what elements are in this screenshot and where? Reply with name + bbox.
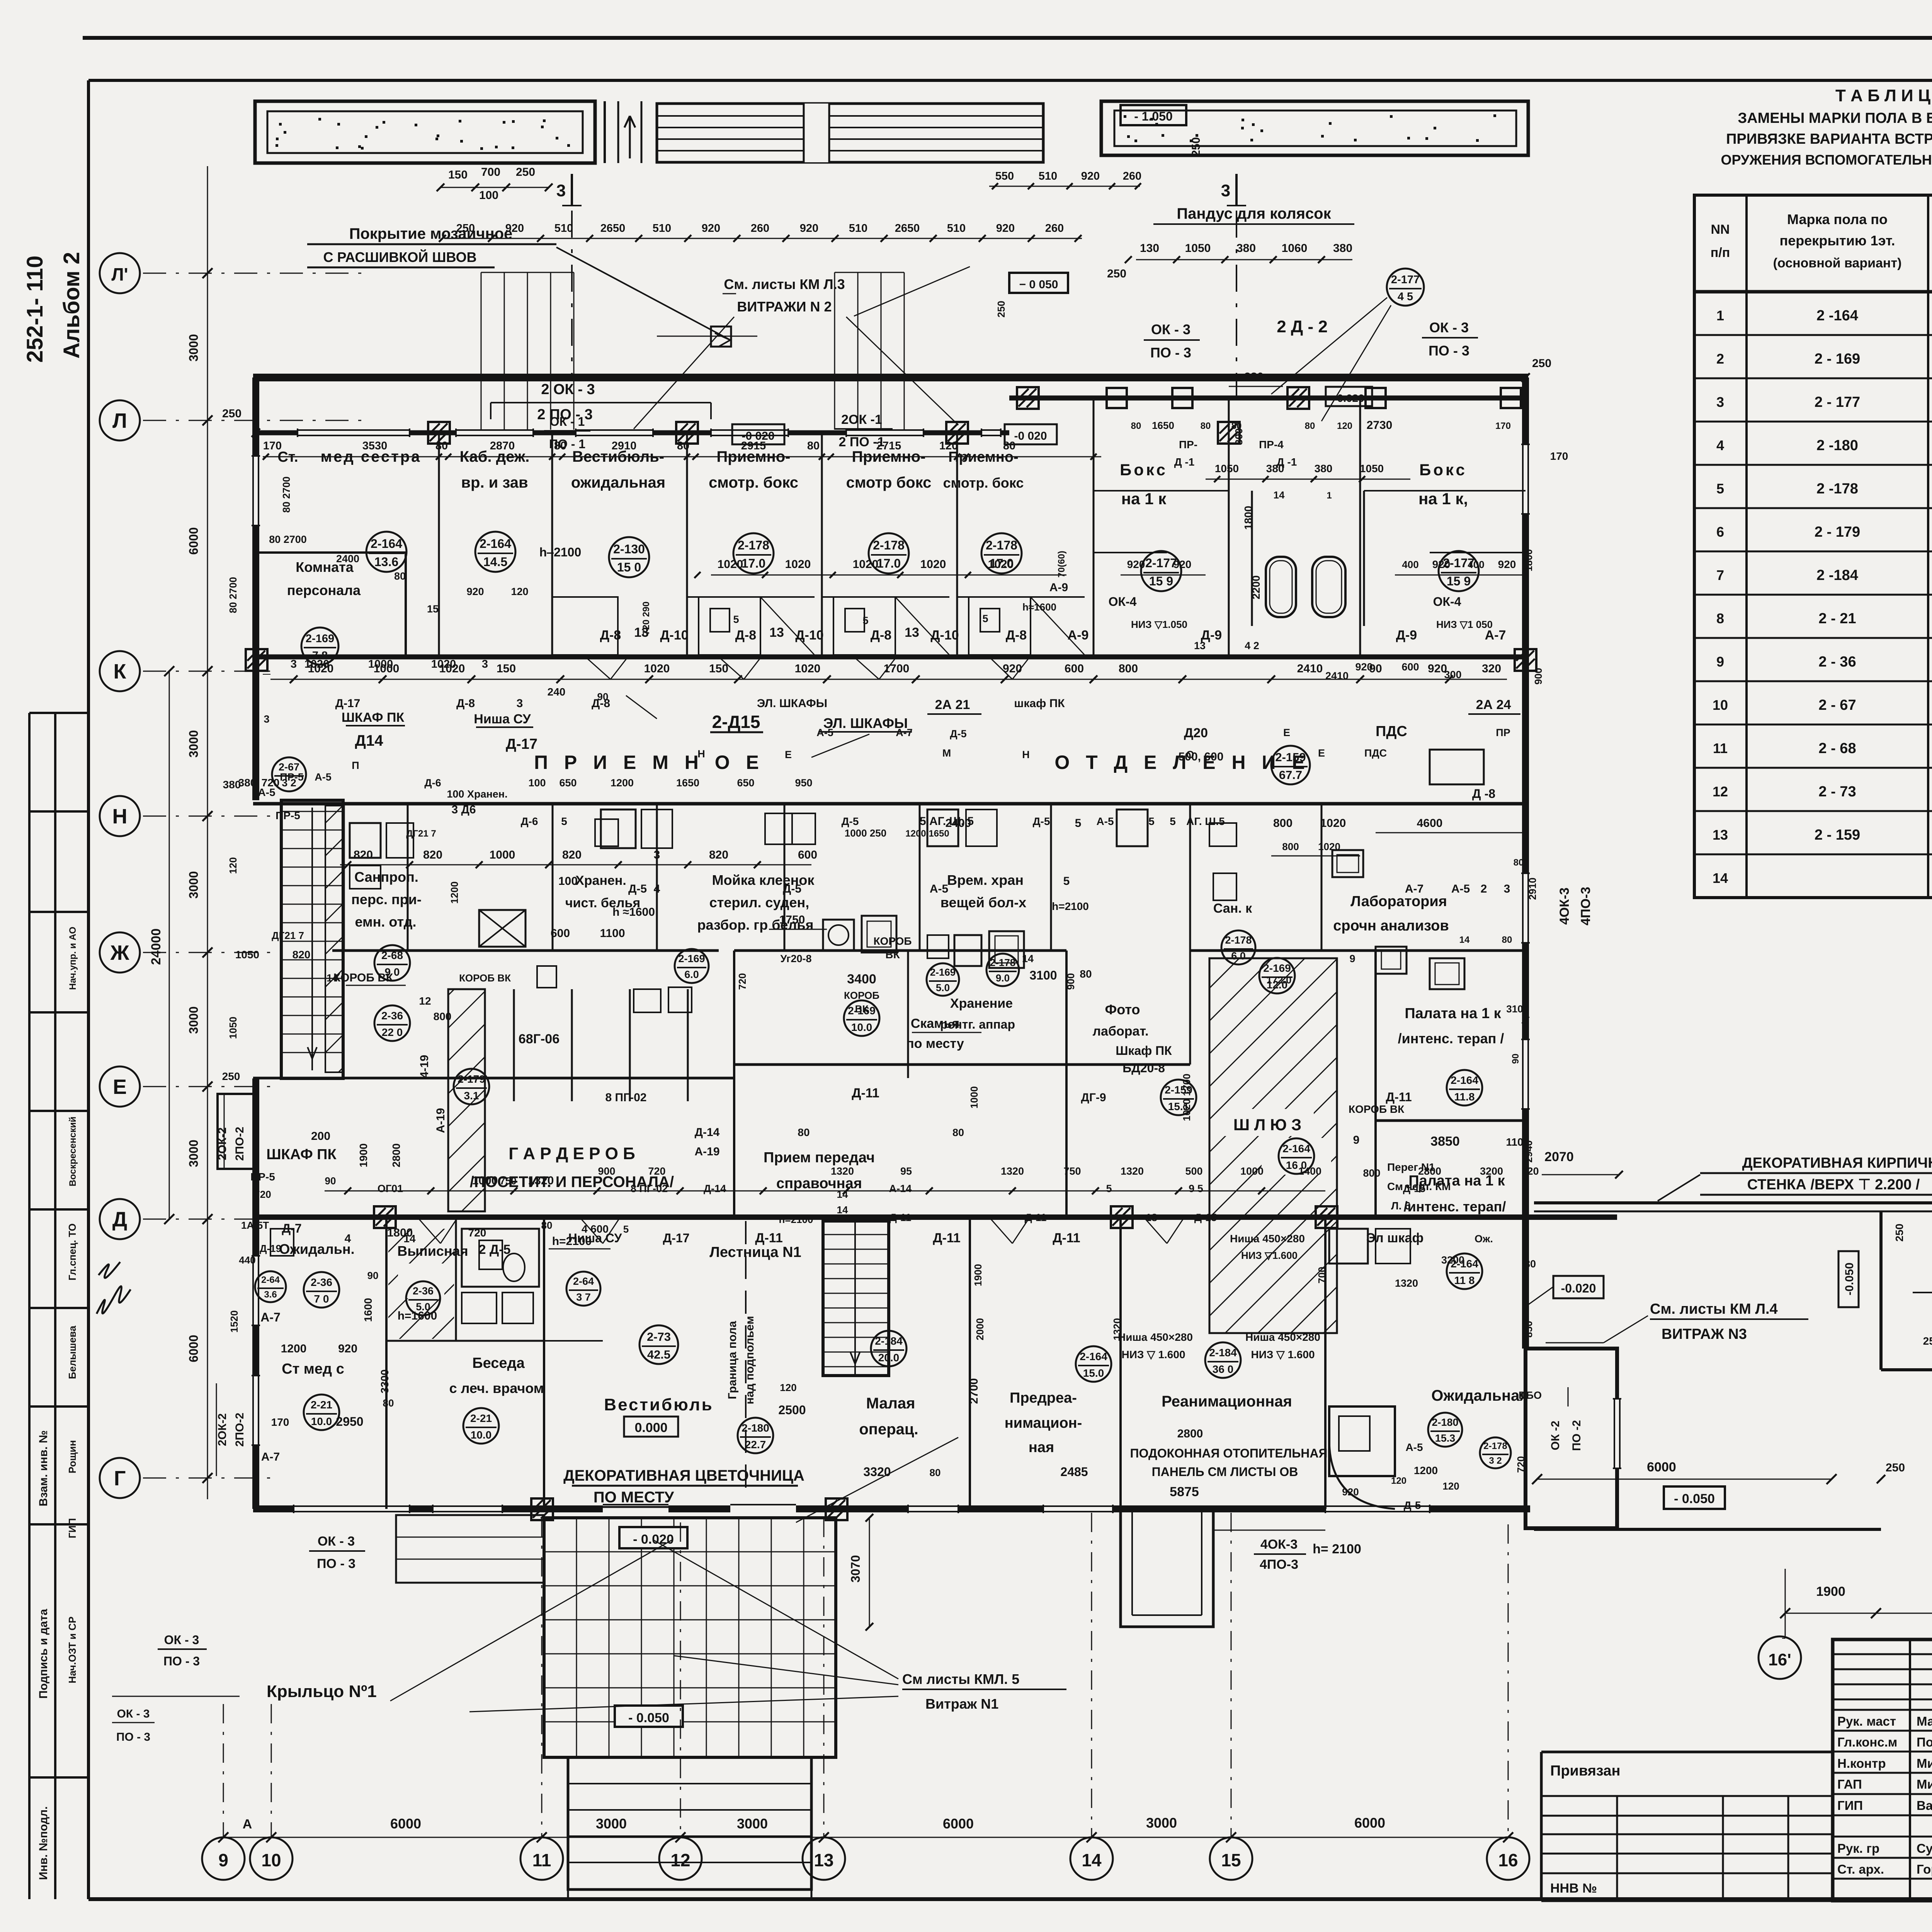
- svg-text:Д-5: Д-5: [1033, 815, 1050, 827]
- svg-text:Предреа-: Предреа-: [1010, 1390, 1077, 1406]
- svg-text:Ст мед с: Ст мед с: [282, 1361, 344, 1377]
- svg-text:2410: 2410: [1297, 662, 1323, 675]
- svg-text:80: 80: [541, 1219, 553, 1231]
- svg-text:Д-5: Д-5: [1404, 1499, 1421, 1511]
- svg-text:250: 250: [1893, 1224, 1905, 1242]
- svg-text:14: 14: [1082, 1850, 1102, 1870]
- svg-text:1050: 1050: [235, 949, 259, 961]
- axis circle Н: [100, 796, 140, 836]
- svg-text:Д-10: Д-10: [930, 628, 959, 643]
- svg-text:Д-8: Д-8: [735, 628, 756, 643]
- svg-text:6: 6: [1716, 524, 1724, 540]
- svg-text:150: 150: [709, 662, 728, 675]
- svg-text:12: 12: [670, 1850, 690, 1870]
- axis line Г: [143, 1478, 270, 1479]
- svg-text:Ожидальная: Ожидальная: [1431, 1387, 1528, 1404]
- svg-text:240: 240: [548, 686, 566, 698]
- svg-text:800: 800: [1282, 841, 1299, 852]
- svg-text:5: 5: [1148, 815, 1155, 827]
- svg-text:90: 90: [325, 1175, 336, 1187]
- svg-text:Хранен.: Хранен.: [575, 873, 626, 888]
- svg-text:4: 4: [1716, 437, 1724, 453]
- svg-text:600: 600: [1401, 661, 1419, 673]
- svg-text:ШКАФ ПК: ШКАФ ПК: [266, 1146, 337, 1163]
- corridor dim line: [270, 679, 1507, 680]
- svg-text:400: 400: [1468, 559, 1484, 570]
- svg-text:13: 13: [814, 1850, 833, 1870]
- svg-text:Ниша 450×280: Ниша 450×280: [1245, 1331, 1320, 1343]
- svg-text:850: 850: [1523, 1321, 1534, 1337]
- canopy chute with arrow: [604, 101, 606, 163]
- right mid dims: [1376, 832, 1522, 833]
- svg-text:Н: Н: [112, 805, 128, 828]
- svg-text:2-180: 2-180: [742, 1422, 769, 1434]
- svg-text:920: 920: [505, 222, 524, 235]
- svg-text:Милешин: Милешин: [1917, 1777, 1932, 1791]
- axis circle 10 bottom: [250, 1837, 293, 1880]
- stamp column row lines: [29, 712, 88, 714]
- svg-text:650: 650: [737, 777, 754, 789]
- граница пола dashed line: [745, 1221, 747, 1499]
- svg-text:КОРОБ: КОРОБ: [844, 990, 879, 1001]
- svg-text:4-19: 4-19: [418, 1055, 431, 1078]
- svg-text:120: 120: [1521, 1165, 1539, 1177]
- svg-text:2-177: 2-177: [1391, 274, 1420, 286]
- svg-text:Крыльцо Nº1: Крыльцо Nº1: [267, 1682, 377, 1701]
- svg-text:900: 900: [1532, 668, 1544, 684]
- svg-text:2-179: 2-179: [457, 1073, 485, 1085]
- svg-text:5: 5: [982, 613, 988, 624]
- svg-text:2-178: 2-178: [990, 957, 1016, 968]
- svg-text:ГАП: ГАП: [1837, 1777, 1862, 1791]
- svg-text:10: 10: [261, 1850, 281, 1870]
- svg-text:5: 5: [733, 614, 739, 625]
- svg-text:Васина: Васина: [1917, 1798, 1932, 1813]
- svg-text:8: 8: [1716, 611, 1724, 626]
- svg-text:1020: 1020: [853, 558, 879, 571]
- svg-text:1060: 1060: [1282, 242, 1308, 255]
- svg-text:Д-17: Д-17: [506, 736, 537, 752]
- svg-text:Д-8: Д-8: [592, 697, 610, 710]
- svg-text:800: 800: [1119, 662, 1138, 675]
- svg-text:1000: 1000: [1240, 1165, 1264, 1177]
- svg-text:2-178: 2-178: [738, 538, 769, 552]
- svg-text:2800: 2800: [1177, 1427, 1203, 1440]
- axis line Е: [143, 1086, 270, 1087]
- svg-text:6000: 6000: [1354, 1815, 1385, 1831]
- svg-text:2870: 2870: [490, 440, 515, 452]
- svg-text:80 2700: 80 2700: [269, 534, 307, 545]
- svg-text:2 - 177: 2 - 177: [1815, 394, 1860, 410]
- svg-text:Марка пола по: Марка пола по: [1787, 211, 1888, 227]
- svg-text:А-7: А-7: [896, 727, 913, 738]
- svg-text:2070: 2070: [1544, 1150, 1574, 1164]
- section mark 3 right: [1235, 174, 1238, 206]
- wall Ж partial segments: [332, 949, 719, 952]
- svg-text:2-36: 2-36: [381, 1010, 403, 1022]
- svg-text:15.3: 15.3: [1435, 1432, 1456, 1444]
- windows in rooms-top wall: [298, 429, 410, 437]
- svg-text:2-164: 2-164: [1080, 1350, 1107, 1362]
- svg-text:250: 250: [995, 301, 1007, 317]
- svg-text:стерил. суден,: стерил. суден,: [709, 895, 809, 910]
- svg-text:1200: 1200: [1414, 1464, 1438, 1476]
- svg-text:ПРИВЯЗКЕ ВАРИАНТА ВСТРОЕННОГО: ПРИВЯЗКЕ ВАРИАНТА ВСТРОЕННОГО СО-: [1726, 131, 1932, 147]
- svg-text:4600: 4600: [1417, 817, 1443, 830]
- svg-text:3: 3: [654, 849, 660, 861]
- svg-text:80: 80: [1201, 421, 1211, 431]
- svg-text:Т А Б Л И Ц А: Т А Б Л И Ц А: [1835, 86, 1932, 105]
- svg-text:260: 260: [1123, 170, 1141, 182]
- svg-text:120: 120: [780, 1382, 796, 1393]
- перегородки в сануз зонах боксов: [687, 596, 815, 598]
- svg-text:5: 5: [561, 815, 567, 827]
- top dim rows: [440, 187, 549, 188]
- section mark 3 left: [571, 174, 573, 206]
- svg-text:ОГ01: ОГ01: [378, 1183, 403, 1194]
- svg-text:5 АГ. Ш. 5: 5 АГ. Ш. 5: [920, 815, 974, 828]
- axis circle 12 bottom: [659, 1837, 702, 1880]
- svg-text:П: П: [352, 760, 359, 771]
- plain column squares entrance wall: [1107, 388, 1127, 408]
- svg-text:13: 13: [1713, 827, 1728, 843]
- svg-text:1800: 1800: [387, 1226, 413, 1239]
- svg-text:250: 250: [1886, 1461, 1905, 1474]
- svg-text:5: 5: [1063, 875, 1070, 888]
- svg-text:3: 3: [556, 181, 566, 200]
- svg-text:2 Д - 2: 2 Д - 2: [1277, 317, 1328, 336]
- svg-text:ПО - 3: ПО - 3: [1429, 343, 1469, 359]
- -0.050 box top right: [1009, 273, 1068, 293]
- svg-text:2 - 73: 2 - 73: [1818, 784, 1856, 800]
- exterior wall left: [252, 378, 259, 800]
- svg-text:1320: 1320: [528, 1174, 554, 1187]
- ramp lower boundary: [1879, 1212, 1883, 1370]
- svg-text:Альбом 2: Альбом 2: [59, 252, 84, 359]
- svg-text:ОК-4: ОК-4: [1109, 595, 1137, 609]
- svg-text:68Г-06: 68Г-06: [519, 1032, 560, 1046]
- svg-text:80: 80: [554, 440, 566, 452]
- svg-text:ВИТРАЖИ N 2: ВИТРАЖИ N 2: [737, 299, 832, 315]
- svg-text:3: 3: [264, 713, 269, 725]
- svg-text:16': 16': [1768, 1650, 1791, 1669]
- svg-text:9 5: 9 5: [1189, 1183, 1203, 1194]
- svg-text:120: 120: [511, 586, 528, 597]
- svg-text:90: 90: [367, 1270, 379, 1281]
- svg-text:260: 260: [751, 222, 769, 235]
- svg-text:перс. при-: перс. при-: [351, 891, 422, 907]
- porch side ledge left: [396, 1515, 544, 1583]
- svg-text:510: 510: [653, 222, 671, 235]
- svg-text:2 - 169: 2 - 169: [1815, 351, 1860, 367]
- svg-text:ННВ №: ННВ №: [1550, 1881, 1597, 1896]
- svg-text:1000: 1000: [968, 1086, 980, 1109]
- svg-text:А-9: А-9: [1068, 628, 1089, 643]
- svg-text:1: 1: [1716, 308, 1724, 323]
- svg-text:Д -1: Д -1: [1277, 456, 1297, 468]
- svg-text:4 2: 4 2: [1245, 640, 1259, 651]
- svg-text:СТЕНКА /ВЕРХ ⊤ 2.200 /: СТЕНКА /ВЕРХ ⊤ 2.200 /: [1747, 1177, 1920, 1193]
- витраж mullions right group: [834, 272, 835, 430]
- svg-text:2200: 2200: [1250, 575, 1262, 599]
- svg-text:1020: 1020: [1320, 817, 1346, 830]
- svg-text:300: 300: [1444, 669, 1461, 680]
- svg-text:200: 200: [311, 1130, 330, 1143]
- top strip partitions: [438, 433, 440, 657]
- svg-text:5: 5: [1106, 1183, 1112, 1194]
- svg-text:КОРОБ ВК: КОРОБ ВК: [1349, 1103, 1405, 1115]
- svg-text:ВБО: ВБО: [1519, 1389, 1542, 1401]
- svg-text:100 Хранен.: 100 Хранен.: [447, 788, 507, 800]
- svg-text:1200: 1200: [449, 881, 460, 904]
- svg-text:Д: Д: [112, 1208, 127, 1231]
- title block outer: [1833, 1639, 1932, 1901]
- svg-text:ПДС: ПДС: [1364, 747, 1387, 759]
- svg-text:Ст. арх.: Ст. арх.: [1837, 1862, 1884, 1876]
- svg-text:3.1: 3.1: [464, 1090, 479, 1102]
- svg-text:1650: 1650: [676, 777, 699, 789]
- svg-text:над подпольем: над подпольем: [743, 1316, 756, 1405]
- svg-text:9.0: 9.0: [996, 972, 1010, 984]
- svg-text:170: 170: [263, 440, 282, 452]
- svg-text:Фото: Фото: [1105, 1002, 1140, 1017]
- wall палаты divider: [1376, 1119, 1526, 1122]
- svg-text:3 7: 3 7: [576, 1291, 591, 1303]
- svg-text:Бокс: Бокс: [1120, 461, 1168, 479]
- svg-text:смотр. бокс: смотр. бокс: [943, 475, 1024, 491]
- second bump entrance: [1121, 1509, 1213, 1627]
- svg-text:2-178: 2-178: [1225, 934, 1252, 946]
- sanitary sub-cells in boxes: [699, 597, 760, 655]
- svg-text:Нач.ОЗТ и СР: Нач.ОЗТ и СР: [66, 1617, 78, 1684]
- frame left line: [87, 80, 90, 1899]
- svg-text:16: 16: [1498, 1850, 1518, 1870]
- svg-text:2700: 2700: [968, 1378, 980, 1404]
- svg-text:Подольский: Подольский: [1917, 1735, 1932, 1749]
- svg-text:80: 80: [435, 440, 448, 452]
- svg-text:750: 750: [500, 1175, 516, 1187]
- svg-text:Д-6: Д-6: [521, 815, 538, 827]
- svg-text:НИЗ ▽1.600: НИЗ ▽1.600: [1241, 1250, 1298, 1261]
- svg-text:920: 920: [800, 222, 818, 235]
- svg-text:95: 95: [900, 1165, 912, 1177]
- svg-text:Белышева: Белышева: [66, 1325, 78, 1379]
- svg-text:А-19: А-19: [434, 1108, 447, 1133]
- svg-text:10: 10: [1713, 697, 1728, 713]
- svg-text:17.0: 17.0: [877, 556, 901, 570]
- svg-text:14: 14: [1022, 953, 1034, 964]
- svg-text:15: 15: [1221, 1850, 1241, 1870]
- left stair block: [281, 800, 343, 1078]
- sheet top border line: [83, 36, 1932, 40]
- svg-text:67.7: 67.7: [1279, 768, 1302, 782]
- svg-text:22.7: 22.7: [745, 1439, 766, 1451]
- circled 2-177 45 entrance: [1387, 269, 1424, 306]
- svg-text:перекрытию 1эт.: перекрытию 1эт.: [1780, 233, 1895, 248]
- svg-text:150: 150: [448, 168, 468, 181]
- выписная hatch area: [388, 1229, 454, 1339]
- svg-text:Милешин·: Милешин·: [1917, 1756, 1932, 1770]
- svg-text:h=2100: h=2100: [552, 1235, 592, 1248]
- svg-text:380: 380: [1333, 242, 1352, 255]
- svg-text:Суханов: Суханов: [1917, 1841, 1932, 1855]
- svg-text:-0 020: -0 020: [1014, 430, 1047, 442]
- svg-text:15 0: 15 0: [617, 560, 641, 574]
- svg-text:А-5: А-5: [315, 771, 332, 783]
- svg-text:2-159: 2-159: [1275, 750, 1306, 764]
- svg-text:См. листы КМ Л.4: См. листы КМ Л.4: [1650, 1301, 1778, 1317]
- svg-text:3000: 3000: [187, 871, 201, 898]
- title block left sub-table (Привязан): [1541, 1751, 1833, 1753]
- svg-text:ная: ная: [1029, 1439, 1054, 1456]
- svg-text:3000: 3000: [1146, 1815, 1177, 1831]
- svg-text:3100: 3100: [1029, 968, 1057, 982]
- svg-text:А-5: А-5: [930, 883, 948, 895]
- svg-text:380: 380: [1236, 242, 1256, 255]
- svg-text:3000: 3000: [187, 1139, 201, 1167]
- svg-text:NN: NN: [1711, 222, 1730, 237]
- svg-text:380: 380: [1244, 371, 1264, 383]
- svg-text:820: 820: [293, 949, 311, 961]
- svg-text:2 - 21: 2 - 21: [1818, 611, 1856, 627]
- svg-text:2915: 2915: [741, 440, 766, 452]
- axis line А': [143, 273, 369, 274]
- svg-text:h≈1600: h≈1600: [1022, 601, 1056, 613]
- canopy mosaic slab left: [255, 101, 595, 163]
- svg-text:3: 3: [482, 658, 488, 670]
- svg-text:Врем. хран: Врем. хран: [947, 872, 1024, 888]
- svg-text:920: 920: [1342, 1486, 1359, 1498]
- svg-text:ПР-: ПР-: [1179, 439, 1197, 451]
- hatched columns at Д wall and bottom: [531, 1498, 553, 1520]
- svg-text:ПО - 3: ПО - 3: [317, 1556, 355, 1571]
- svg-text:Сан. к: Сан. к: [1213, 901, 1252, 916]
- svg-text:БД20-8: БД20-8: [1122, 1061, 1165, 1075]
- wall К axis: [253, 655, 1528, 660]
- svg-text:2 - 68: 2 - 68: [1818, 740, 1856, 757]
- svg-text:250: 250: [456, 222, 475, 235]
- svg-text:720: 720: [254, 1189, 271, 1200]
- bottom strip partitions: [385, 1217, 388, 1509]
- svg-text:1020: 1020: [988, 558, 1014, 571]
- svg-text:250: 250: [1532, 357, 1551, 370]
- svg-text:4ПО-3: 4ПО-3: [1578, 887, 1593, 925]
- svg-text:Шкаф ПК: Шкаф ПК: [1116, 1044, 1172, 1058]
- svg-text:НИЗ ▽1 050: НИЗ ▽1 050: [1436, 619, 1493, 630]
- svg-text:КОРОБ ВК: КОРОБ ВК: [459, 972, 511, 984]
- axis line К: [143, 671, 270, 672]
- svg-text:Подпись и дата: Подпись и дата: [37, 1609, 50, 1699]
- svg-text:550: 550: [995, 170, 1014, 182]
- svg-text:на 1 к,: на 1 к,: [1418, 490, 1468, 508]
- svg-text:170: 170: [1495, 421, 1511, 431]
- svg-text:250: 250: [222, 1070, 240, 1082]
- stair №1: [823, 1221, 889, 1376]
- svg-text:1320: 1320: [1121, 1165, 1144, 1177]
- svg-text:1020: 1020: [1318, 841, 1340, 852]
- комната персонала walls: [256, 551, 406, 554]
- svg-text:42.5: 42.5: [647, 1348, 670, 1361]
- svg-text:120: 120: [227, 857, 239, 874]
- svg-text:Горюнова: Горюнова: [1917, 1862, 1932, 1876]
- svg-text:920: 920: [1432, 558, 1451, 570]
- svg-text:ВК: ВК: [855, 1003, 869, 1015]
- svg-text:Н.контр: Н.контр: [1837, 1756, 1886, 1770]
- svg-text:2 -164: 2 -164: [1816, 308, 1858, 324]
- svg-text:1520: 1520: [228, 1310, 240, 1333]
- svg-text:720: 720: [736, 973, 748, 990]
- svg-text:2-164: 2-164: [480, 537, 511, 551]
- svg-text:320: 320: [1482, 662, 1501, 675]
- svg-text:Д-10: Д-10: [660, 628, 688, 643]
- bottom strip dim line: [325, 1190, 1325, 1192]
- svg-text:70(60): 70(60): [1056, 551, 1067, 577]
- svg-text:1000: 1000: [472, 1174, 498, 1187]
- svg-text:800: 800: [1273, 817, 1293, 830]
- svg-text:Д-15: Д-15: [1403, 1183, 1425, 1194]
- svg-text:2 - 67: 2 - 67: [1818, 697, 1856, 713]
- svg-text:11 8: 11 8: [1454, 1274, 1475, 1286]
- svg-text:А-7: А-7: [261, 1451, 280, 1463]
- декоративная стенка double line: [1534, 1201, 1932, 1204]
- svg-text:250: 250: [1923, 1335, 1932, 1347]
- svg-text:2ПО-2: 2ПО-2: [233, 1413, 246, 1447]
- svg-text:Д-8: Д-8: [600, 628, 621, 643]
- canopy horizontal-strip deck: [657, 104, 1043, 162]
- bathtubs in 2Д-2 entrance: [1266, 557, 1296, 617]
- dim row 1050 380 380 1050 middle: [1206, 479, 1410, 480]
- svg-text:920: 920: [466, 586, 484, 597]
- svg-text:260: 260: [1045, 222, 1064, 235]
- svg-text:1200: 1200: [611, 777, 634, 789]
- svg-text:ОК - 3: ОК - 3: [318, 1534, 355, 1549]
- svg-text:1А-5Т: 1А-5Т: [241, 1219, 269, 1231]
- svg-text:2-184: 2-184: [1209, 1347, 1237, 1359]
- svg-text:ВК: ВК: [885, 949, 900, 961]
- svg-text:2-164: 2-164: [1282, 1143, 1310, 1155]
- svg-text:9: 9: [1353, 1134, 1360, 1146]
- svg-text:- 0.050: - 0.050: [1674, 1492, 1715, 1506]
- svg-text:1020 1700: 1020 1700: [1181, 1074, 1192, 1121]
- svg-text:Нач.упр. и АО: Нач.упр. и АО: [68, 927, 78, 990]
- svg-text:Реанимационная: Реанимационная: [1162, 1393, 1292, 1410]
- svg-text:Е: Е: [785, 749, 792, 760]
- svg-text:ДГ21 7: ДГ21 7: [406, 828, 436, 839]
- svg-text:ДЕКОРАТИВНАЯ ЦВЕТОЧНИЦА: ДЕКОРАТИВНАЯ ЦВЕТОЧНИЦА: [563, 1467, 804, 1484]
- svg-text:Ж: Ж: [110, 941, 130, 964]
- svg-text:КОРОБ: КОРОБ: [873, 935, 912, 947]
- svg-text:15 9: 15 9: [1149, 574, 1173, 588]
- axis line Ж: [143, 952, 270, 953]
- санузлы coridor cells: [601, 810, 636, 848]
- hatched column squares at rooms-top wall: [428, 422, 450, 444]
- svg-text:ПР: ПР: [1496, 727, 1510, 738]
- svg-text:2-164: 2-164: [371, 537, 402, 551]
- svg-text:2400: 2400: [336, 553, 359, 565]
- svg-text:2650: 2650: [895, 222, 920, 235]
- svg-text:Палата на 1 к: Палата на 1 к: [1405, 1005, 1501, 1022]
- svg-text:2800: 2800: [390, 1143, 402, 1167]
- axis circle 13 bottom: [803, 1837, 845, 1880]
- svg-text:13: 13: [905, 625, 919, 640]
- svg-text:ПАНЕЛЬ СМ ЛИСТЫ ОВ: ПАНЕЛЬ СМ ЛИСТЫ ОВ: [1152, 1465, 1298, 1479]
- svg-text:- 1.050: - 1.050: [1134, 109, 1173, 123]
- svg-text:2 Д-5: 2 Д-5: [479, 1242, 511, 1257]
- svg-text:2 ОК - 3: 2 ОК - 3: [541, 381, 595, 398]
- svg-text:ШКАФ ПК: ШКАФ ПК: [342, 710, 405, 725]
- svg-text:рентг. аппар: рентг. аппар: [940, 1017, 1015, 1031]
- svg-text:Гл.спец. ТО: Гл.спец. ТО: [66, 1223, 78, 1281]
